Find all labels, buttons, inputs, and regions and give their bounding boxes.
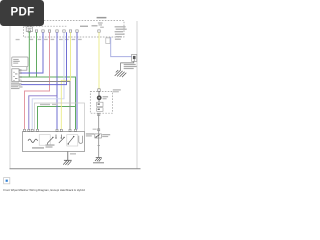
svg-text:Front Wiper/Washer Wiring Diag: Front Wiper/Washer Wiring Diagram, Excep… (3, 188, 85, 192)
svg-text:PDF: PDF (11, 7, 35, 19)
